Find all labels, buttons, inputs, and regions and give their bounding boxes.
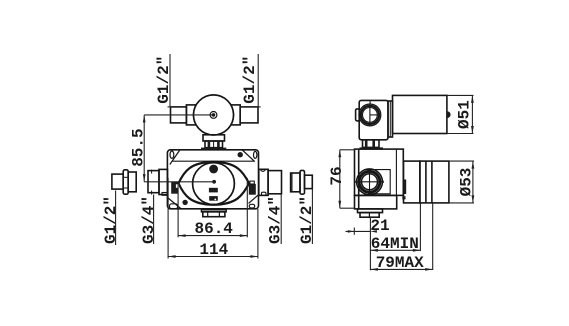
side bottom fitting wide [358, 209, 383, 213]
bonnet [203, 135, 225, 141]
arrow 79 right [425, 268, 433, 271]
handle circle redraw over pipes [194, 95, 234, 135]
cartridge circle [193, 163, 235, 205]
side body upper [355, 149, 404, 195]
dim phi51 ext [447, 94, 474, 96]
right plug G1/2 head [291, 173, 300, 192]
right body fitting G3/4 narrow [268, 171, 281, 194]
top dot [209, 165, 218, 174]
dim 86.4 line [178, 235, 247, 237]
svg-text:G3/4": G3/4" [140, 196, 158, 244]
chamfer top-right [242, 150, 255, 162]
dim 114 ext lines [167, 178, 169, 259]
port ring inner [362, 174, 378, 190]
left body fitting G3/4 narrow [148, 171, 159, 193]
chamfer bottom-left [168, 198, 181, 209]
knob black bar [404, 180, 407, 195]
escutcheon eye outline [179, 162, 250, 205]
dim 76 line [339, 150, 341, 208]
flange bottom bump [261, 192, 266, 195]
side body lower [355, 195, 397, 209]
ext line G1/2 bottom-left [115, 191, 117, 246]
arrow phi53 bottom [472, 195, 475, 203]
dim phi53 ext [449, 160, 474, 162]
side handle cross vertical [369, 104, 371, 125]
ext line G3/4 bottom-right [280, 194, 282, 244]
right plug thread [305, 175, 313, 188]
left pipe narrow [171, 107, 187, 123]
knob end dot [447, 111, 450, 118]
arrow 21 right [370, 230, 377, 233]
right clip notch [250, 181, 254, 184]
arrow 76 top [338, 150, 341, 158]
arrow phi51 top [471, 95, 474, 103]
arrow phi53 top [472, 161, 475, 169]
svg-text:G1/2": G1/2" [102, 196, 120, 244]
screw hole ellipse top-left [170, 151, 174, 158]
arrow 86.4 left [178, 234, 186, 237]
chamfer bottom-right [249, 195, 259, 203]
side handle ring mid [361, 106, 379, 124]
svg-text:64MIN: 64MIN [371, 235, 419, 253]
dim 85.5 line [143, 115, 145, 182]
left plug collar [123, 170, 128, 194]
right pipe narrow [240, 107, 258, 123]
screw hole ellipse top-right [254, 151, 257, 158]
phi53 knob flange [404, 161, 420, 203]
slot bottom-left [170, 204, 178, 209]
right plug collar [300, 170, 305, 194]
side block top step [369, 101, 371, 104]
svg-text:79MAX: 79MAX [376, 254, 424, 272]
arrow 76 bottom [338, 201, 341, 209]
svg-text:85.5: 85.5 [130, 128, 148, 166]
stem base plate [201, 148, 226, 150]
phi51 knob cylinder [393, 95, 447, 133]
svg-text:G1/2": G1/2" [241, 56, 259, 104]
left pipe wide [186, 105, 197, 125]
arrow 79 left [370, 268, 378, 271]
dim 64MIN [370, 249, 420, 251]
svg-text:21: 21 [370, 217, 389, 235]
handle circle front view [194, 95, 234, 135]
flange arc notch [260, 170, 265, 172]
left body fitting G3/4 wide [159, 169, 168, 194]
side handle ring outer [359, 104, 381, 126]
slot bottom-right [249, 204, 254, 208]
side bonnet ribs [363, 140, 380, 148]
svg-text:Ø53: Ø53 [457, 168, 475, 197]
knob black tick [402, 196, 405, 199]
center small dot [212, 180, 216, 184]
arrow 64 right [413, 249, 421, 252]
mark rect 1 [209, 188, 218, 193]
svg-text:114: 114 [199, 241, 228, 259]
arrow 114 right [250, 255, 258, 258]
phi53 knob cylinder [420, 161, 449, 203]
left plug G1/2 thread [112, 174, 123, 189]
side body inner left line [358, 149, 360, 209]
leader to handle center [144, 114, 212, 116]
left clip [171, 182, 178, 194]
dim 86.4 ext lines [177, 184, 179, 237]
left fitting bottom step [162, 193, 167, 196]
svg-text:86.4: 86.4 [194, 220, 233, 238]
bottom outlet flange front [202, 210, 227, 212]
dim 21 [346, 230, 371, 232]
arrow 86.4 right [240, 234, 248, 237]
screw dot top-right [238, 152, 243, 157]
arrow 21 left [348, 230, 355, 233]
body inner top line [172, 160, 255, 162]
port ring thick [359, 171, 380, 192]
chamfer top-left [170, 151, 180, 165]
screw dot bottom-left [182, 200, 187, 205]
ext line G1/2 bottom-right [311, 189, 313, 244]
side bottom fitting hex [360, 213, 379, 218]
dim 114 line [168, 256, 258, 258]
ext line G1/2 top-right [257, 54, 259, 107]
stem ribs [205, 141, 223, 148]
body front view [167, 150, 258, 209]
svg-text:G1/2": G1/2" [155, 56, 173, 104]
side block left tab [356, 109, 360, 121]
right clip [249, 184, 256, 195]
tick top [151, 170, 153, 174]
handle center ring [210, 112, 217, 119]
side handle ring inner [363, 108, 378, 123]
bottom outlet hex front [203, 212, 225, 217]
side handle cross horizontal [370, 114, 380, 116]
arrow phi51 bottom [471, 126, 474, 134]
ext line G1/2 top-left [169, 54, 171, 107]
port cross horizontal [357, 181, 383, 183]
svg-text:Ø51: Ø51 [456, 100, 474, 129]
inner cartridge box [364, 170, 390, 194]
ext line G3/4 bottom-left [153, 195, 155, 245]
mark rect 2 [209, 196, 218, 201]
left plug head [128, 172, 136, 192]
side base plate [360, 147, 384, 149]
port cross vertical [369, 170, 371, 193]
arrow 114 left [168, 255, 176, 258]
svg-text:G1/2": G1/2" [298, 196, 316, 244]
leader to body center [144, 181, 212, 183]
svg-text:G3/4": G3/4" [267, 196, 285, 244]
tick bottom [151, 191, 153, 195]
handle center dot [212, 113, 216, 117]
port side ticks [355, 181, 357, 183]
arrow 85.5 top [143, 115, 146, 123]
side body inner right line [395, 149, 397, 195]
arrow 85.5 bottom [143, 174, 146, 182]
right body fitting G3/4 flange [259, 169, 268, 195]
side flange strip [388, 101, 393, 137]
arrowheads [143, 95, 475, 270]
right pipe wide [230, 105, 240, 125]
svg-text:76: 76 [328, 166, 346, 185]
port ring outer [357, 169, 383, 195]
center ext line [369, 217, 371, 270]
arrow 64 left [370, 249, 378, 252]
side handle block [359, 100, 388, 139]
dim 79MAX [370, 268, 432, 270]
